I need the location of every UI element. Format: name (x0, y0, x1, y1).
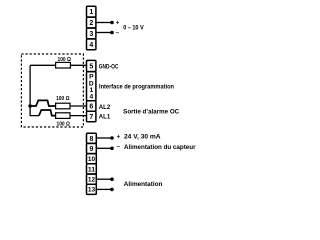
svg-text:Alimentation du capteur: Alimentation du capteur (124, 145, 196, 151)
svg-text:7: 7 (89, 114, 93, 121)
svg-text:1: 1 (89, 9, 93, 16)
svg-text:13: 13 (88, 187, 96, 194)
svg-text:24 V, 30 mA: 24 V, 30 mA (124, 135, 161, 141)
node 24V + (dot) (110, 136, 114, 140)
svg-text:12: 12 (88, 177, 96, 184)
svg-text:+: + (116, 21, 120, 27)
wire terminal 3 to output dot (96, 32, 112, 34)
svg-text:100 Ω: 100 Ω (57, 121, 71, 127)
svg-text:100 Ω: 100 Ω (58, 57, 72, 63)
svg-text:10: 10 (88, 156, 96, 163)
terminal block J1 (terminals 1-4) (87, 6, 96, 49)
svg-text:4: 4 (89, 42, 93, 49)
node supply a (dot) (110, 177, 114, 181)
resistor R3 100ohm (56, 113, 70, 119)
node sensor supply - (dot) (110, 147, 114, 151)
terminal block J2 PD14 (terminals 5,6,7) (87, 60, 96, 121)
svg-text:0 – 10 V: 0 – 10 V (123, 25, 144, 32)
wire terminal 12 to dot (96, 178, 112, 180)
svg-text:3: 3 (89, 31, 93, 38)
wire terminal 13 to dot (96, 188, 112, 190)
node output + (dot) (110, 21, 114, 25)
svg-text:–: – (116, 31, 120, 37)
svg-text:AL1: AL1 (99, 115, 111, 121)
pushbutton S2 (AL1 branch) (39, 110, 56, 116)
wire R3 to terminal 7 (70, 115, 87, 117)
wire R2 to terminal 6 (70, 105, 87, 107)
device name PD14 vertical (89, 74, 94, 101)
terminal block J3 (terminals 8-13) (87, 133, 97, 194)
wire GND-OC from left bus to resistor (70, 64, 86, 66)
svg-text:Alimentation: Alimentation (124, 182, 163, 188)
wire left vertical bus (29, 65, 31, 106)
wire terminal 2 to output dot (96, 22, 112, 24)
pushbutton S1 (AL2 branch) (30, 100, 55, 106)
wire junction down to AL1 branch (30, 106, 39, 116)
svg-text:Interface de programmation: Interface de programmation (99, 84, 174, 90)
svg-text:GND-OC: GND-OC (99, 64, 119, 70)
dashed box programming interface (21, 54, 83, 127)
svg-text:100 Ω: 100 Ω (56, 96, 70, 102)
node output - (dot) (110, 31, 114, 35)
svg-text:9: 9 (90, 146, 94, 153)
svg-text:8: 8 (90, 136, 94, 143)
resistor R1 100ohm (30, 62, 70, 68)
svg-text:–: – (117, 144, 121, 150)
wire terminal 9 to dot (96, 147, 112, 149)
svg-text:11: 11 (88, 166, 96, 173)
wire terminal 8 to dot (96, 137, 112, 139)
svg-text:+: + (117, 134, 121, 140)
junction node (dot) (28, 104, 32, 108)
svg-text:AL2: AL2 (99, 105, 111, 111)
node supply b (dot) (110, 188, 114, 192)
svg-text:2: 2 (89, 20, 93, 27)
svg-text:6: 6 (89, 104, 93, 111)
svg-text:4: 4 (89, 94, 93, 101)
resistor R2 100ohm (56, 103, 70, 109)
svg-text:5: 5 (89, 64, 93, 71)
svg-text:Sortie d’alarme OC: Sortie d’alarme OC (123, 110, 180, 116)
